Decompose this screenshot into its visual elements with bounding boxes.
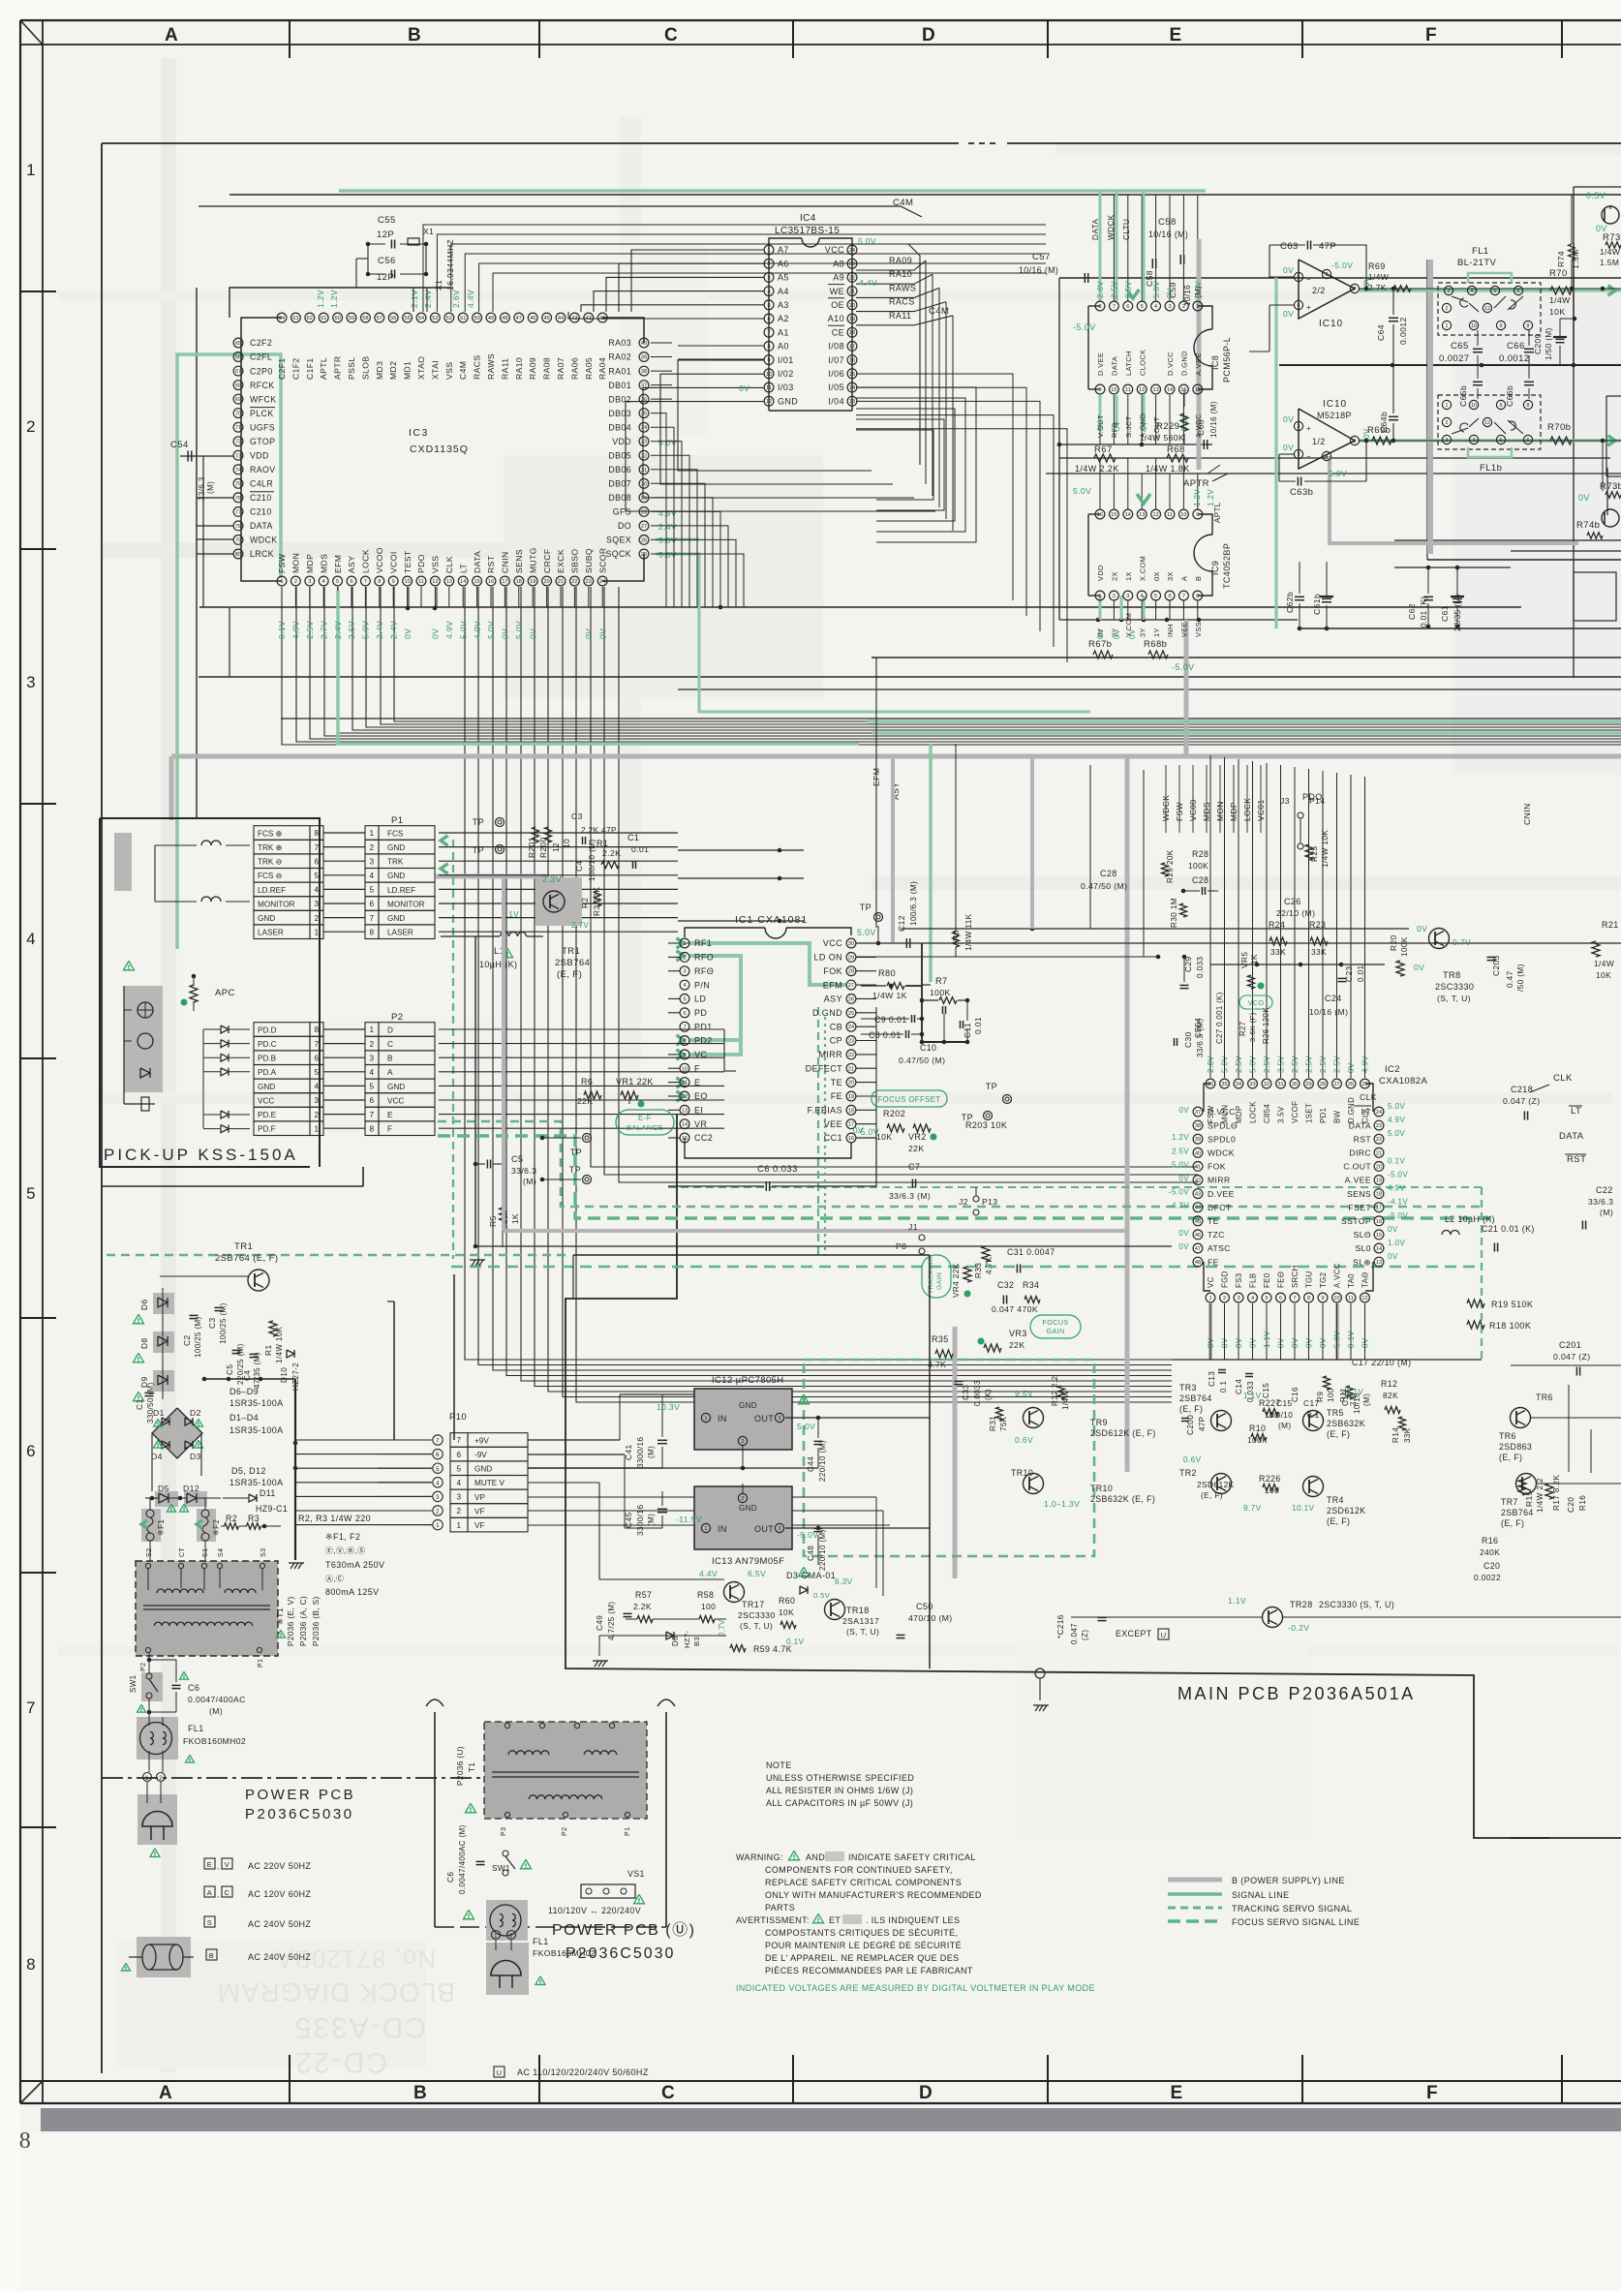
svg-text:EO: EO	[694, 1091, 708, 1101]
svg-text:C1F2: C1F2	[291, 357, 300, 380]
svg-text:MON: MON	[291, 553, 301, 573]
svg-text:8: 8	[1196, 594, 1199, 599]
svg-text:2: 2	[1446, 306, 1449, 312]
svg-text:D: D	[387, 1026, 393, 1034]
svg-text:C64b: C64b	[1379, 412, 1389, 433]
svg-text:ET: ET	[829, 1915, 841, 1925]
svg-text:VR5: VR5	[1239, 952, 1249, 969]
svg-text:3: 3	[1237, 1296, 1239, 1301]
svg-text:0.47/50 (M): 0.47/50 (M)	[1081, 881, 1127, 891]
svg-text:56: 56	[390, 316, 396, 321]
svg-text:C28: C28	[1100, 869, 1117, 878]
svg-text:1/4W: 1/4W	[1368, 272, 1389, 282]
wire P2 rows to right	[439, 1028, 724, 1030]
svg-text:0V: 0V	[1283, 265, 1294, 275]
svg-text:0V: 0V	[1283, 414, 1294, 424]
svg-text:P2036C5030: P2036C5030	[566, 1945, 675, 1962]
svg-text:C48: C48	[807, 1546, 815, 1561]
svg-text:5: 5	[370, 886, 375, 895]
svg-text:PD: PD	[694, 1008, 707, 1018]
svg-text:C6 0.033: C6 0.033	[757, 1164, 798, 1175]
svg-text:C30: C30	[1183, 1031, 1193, 1048]
svg-text:0V: 0V	[1140, 420, 1148, 431]
svg-text:22K: 22K	[908, 1144, 925, 1153]
svg-text:6: 6	[1527, 438, 1530, 444]
svg-text:15: 15	[1376, 1233, 1382, 1239]
svg-text:71: 71	[235, 425, 241, 431]
svg-text:EFM: EFM	[333, 555, 343, 573]
svg-text:R5: R5	[488, 1215, 498, 1227]
svg-text:FGD: FGD	[1221, 1270, 1230, 1288]
svg-text:0V: 0V	[853, 1125, 864, 1135]
wires regulator rails	[620, 1394, 930, 1565]
svg-text:68: 68	[235, 383, 241, 389]
svg-text:0V: 0V	[1347, 1062, 1356, 1073]
svg-text:0V: 0V	[1417, 924, 1427, 934]
svg-text:CB54: CB54	[1194, 1018, 1203, 1038]
svg-text:MD1: MD1	[403, 361, 413, 380]
svg-text:6: 6	[315, 857, 320, 866]
svg-text:R67: R67	[1094, 444, 1113, 455]
svg-text:8: 8	[370, 928, 375, 936]
svg-text:MUTE V: MUTE V	[474, 1479, 505, 1487]
svg-text:2.6V: 2.6V	[1096, 281, 1105, 298]
svg-text:LD: LD	[694, 995, 706, 1004]
svg-text:SENS: SENS	[1347, 1189, 1371, 1199]
svg-text:RFCK: RFCK	[250, 381, 275, 390]
svg-text:A6: A6	[778, 259, 789, 268]
svg-text:0V: 0V	[1319, 1337, 1328, 1348]
wire EFM row	[922, 984, 931, 986]
svg-text:30: 30	[1292, 1082, 1298, 1087]
green P1 arrows	[441, 836, 448, 845]
capacitor C64b	[1379, 365, 1398, 443]
legend line samples	[1168, 1876, 1360, 1927]
svg-text:R74: R74	[1556, 251, 1566, 267]
svg-text:FKOB160MH02: FKOB160MH02	[183, 1736, 246, 1746]
svg-text:B: B	[413, 2083, 427, 2103]
svg-text:SPDL0: SPDL0	[1208, 1134, 1236, 1144]
connector P1 table	[323, 815, 435, 939]
svg-text:R26 120K: R26 120K	[1262, 1007, 1270, 1044]
svg-text:0.1V: 0.1V	[277, 621, 287, 639]
svg-text:C22: C22	[1596, 1185, 1613, 1195]
transistor TR1 power	[160, 1241, 278, 1291]
svg-text:LASER: LASER	[258, 929, 284, 937]
capacitor C58	[1145, 217, 1188, 287]
svg-text:2SB632K (E, F): 2SB632K (E, F)	[1090, 1494, 1155, 1504]
svg-text:0V: 0V	[1096, 628, 1105, 639]
op-amp IC10 1/2	[1283, 399, 1621, 478]
regulator area boundary wires	[573, 1255, 930, 1668]
svg-text:C4M: C4M	[929, 306, 949, 317]
svg-text:11: 11	[1348, 1296, 1354, 1301]
svg-text:SLOB: SLOB	[360, 355, 370, 380]
svg-text:72: 72	[235, 440, 241, 445]
svg-text:TGU: TGU	[1305, 1270, 1314, 1288]
svg-text:2.2K: 2.2K	[602, 848, 621, 858]
svg-text:SPDLΘ: SPDLΘ	[1208, 1120, 1238, 1130]
voltage table E V A C S B	[204, 1858, 311, 1962]
svg-text:V: V	[225, 1860, 229, 1869]
svg-text:4: 4	[1141, 594, 1144, 599]
svg-text:0V: 0V	[584, 628, 594, 639]
svg-text:D8: D8	[139, 1337, 149, 1349]
svg-text:2SD612K (E, F): 2SD612K (E, F)	[1090, 1428, 1156, 1438]
transistor TR6	[1499, 1393, 1553, 1462]
svg-text:L2 10µH (K): L2 10µH (K)	[1445, 1214, 1495, 1224]
svg-text:R27: R27	[1239, 1021, 1247, 1036]
transistor TR2	[1179, 1455, 1281, 1513]
svg-text:5.0V: 5.0V	[361, 621, 371, 639]
svg-text:12: 12	[551, 842, 561, 852]
wire main left border	[101, 143, 103, 2073]
svg-text:RA06: RA06	[569, 357, 579, 380]
svg-text:78: 78	[235, 524, 241, 530]
svg-text:5.0V: 5.0V	[1388, 1129, 1405, 1138]
trimmer VR4 22K rotated	[952, 1263, 971, 1298]
capacitor C61b	[1312, 562, 1333, 628]
svg-text:14: 14	[1125, 512, 1131, 518]
svg-text:12: 12	[1484, 306, 1490, 312]
svg-text:GND: GND	[387, 914, 405, 923]
svg-text:41: 41	[1195, 1164, 1201, 1170]
svg-text:5.0V: 5.0V	[514, 621, 524, 639]
svg-text:6: 6	[1126, 304, 1129, 310]
svg-text:TP: TP	[860, 903, 872, 912]
svg-text:10: 10	[766, 372, 772, 378]
svg-text:15: 15	[682, 1136, 688, 1142]
svg-text:P2036 (U): P2036 (U)	[456, 1746, 465, 1786]
resistor R67	[1075, 444, 1119, 474]
svg-text:2X: 2X	[1111, 571, 1119, 581]
wire y473 R67 line	[1059, 457, 1610, 459]
svg-text:TRACKING: TRACKING	[928, 1257, 934, 1294]
junction dots y627	[406, 606, 411, 611]
svg-text:POUR MAINTENIR LE DEGRÉ DE SÉC: POUR MAINTENIR LE DEGRÉ DE SÉCURITÉ	[765, 1941, 962, 1950]
svg-text:5: 5	[1298, 275, 1300, 281]
svg-text:CLTU: CLTU	[1122, 219, 1131, 240]
svg-text:2SB764 (E, F): 2SB764 (E, F)	[215, 1253, 278, 1264]
svg-text:R16: R16	[1578, 1495, 1587, 1511]
svg-text:COMPONENTS FOR CONTINUED SAFET: COMPONENTS FOR CONTINUED SAFETY,	[765, 1865, 953, 1875]
svg-text:13: 13	[1152, 387, 1158, 393]
svg-text:5: 5	[1141, 304, 1144, 310]
op-amp IC10 2/2	[1283, 260, 1371, 329]
svg-text:R9: R9	[1316, 1392, 1325, 1402]
capacitor C12 and resistor R8	[856, 744, 1409, 959]
svg-text:1.1V: 1.1V	[1346, 1388, 1363, 1396]
wires P10 left leads	[295, 1439, 432, 1441]
svg-text:R14: R14	[1392, 1427, 1400, 1443]
svg-text:FSET: FSET	[1348, 1203, 1371, 1212]
svg-text:E: E	[1170, 2083, 1182, 2103]
svg-text:12: 12	[1139, 387, 1145, 393]
note block	[766, 1760, 914, 1808]
svg-text:6: 6	[315, 1054, 320, 1062]
svg-text:DATA: DATA	[1349, 1120, 1371, 1130]
svg-text:F: F	[694, 1063, 700, 1073]
gray B power to regulators	[953, 1327, 958, 1578]
line filter FL1 (U)	[486, 1900, 596, 1958]
svg-text:IC10: IC10	[1323, 399, 1347, 410]
svg-text:R23: R23	[1309, 920, 1326, 930]
filter FL1	[1438, 246, 1541, 335]
svg-text:4: 4	[1473, 438, 1476, 444]
svg-text:6: 6	[370, 1096, 375, 1105]
svg-text:D10: D10	[280, 1367, 289, 1383]
transistor TR28	[1071, 1596, 1621, 1633]
svg-text:1/4W 10K: 1/4W 10K	[1321, 830, 1330, 868]
svg-text:45: 45	[543, 316, 549, 321]
svg-text:CXA1082A: CXA1082A	[1379, 1076, 1427, 1087]
svg-text:18: 18	[849, 330, 855, 336]
svg-text:57: 57	[377, 316, 382, 321]
svg-text:2.4V: 2.4V	[388, 621, 398, 639]
wire IC8 bottom leads	[1099, 395, 1101, 444]
svg-text:VR3: VR3	[1009, 1329, 1027, 1338]
capacitor C59	[1168, 255, 1203, 306]
capacitor C54	[170, 440, 233, 501]
svg-text:79: 79	[235, 537, 241, 543]
svg-text:8: 8	[370, 1124, 375, 1133]
svg-text:5.0V: 5.0V	[1172, 1160, 1189, 1169]
svg-text:1: 1	[494, 1934, 498, 1940]
svg-text:6: 6	[370, 900, 375, 908]
wire y287 C57 line	[1059, 277, 1621, 279]
svg-text:76: 76	[235, 496, 241, 502]
svg-text:D.GND: D.GND	[1180, 351, 1189, 376]
svg-text:4: 4	[370, 872, 375, 880]
svg-text:DB01: DB01	[608, 381, 631, 390]
svg-text:0V: 0V	[1283, 443, 1294, 452]
svg-text:5: 5	[1154, 594, 1157, 599]
svg-text:1/4W 2.2K: 1/4W 2.2K	[1075, 464, 1119, 474]
svg-text:FL1: FL1	[533, 1937, 549, 1946]
resistor R70b	[1547, 422, 1572, 444]
capacitor C209 right	[1533, 317, 1576, 365]
svg-text:M5218P: M5218P	[1317, 411, 1352, 420]
svg-text:B: B	[209, 1951, 214, 1960]
svg-text:R19 510K: R19 510K	[1491, 1300, 1533, 1309]
svg-text:1K: 1K	[1250, 954, 1259, 964]
svg-text:24: 24	[599, 579, 605, 585]
svg-text:5.0V: 5.0V	[458, 621, 468, 639]
svg-text:R74b: R74b	[1576, 520, 1600, 531]
svg-text:100K: 100K	[1188, 861, 1208, 871]
svg-text:4: 4	[315, 886, 320, 895]
svg-text:42: 42	[1195, 1179, 1201, 1184]
svg-text:22K: 22K	[1009, 1340, 1025, 1350]
gray B feed to IC2 A.VCC	[1335, 1303, 1339, 1360]
svg-text:43: 43	[571, 316, 577, 321]
svg-text:0V: 0V	[431, 628, 441, 639]
svg-text:P3: P3	[501, 1827, 507, 1836]
svg-text:9: 9	[1098, 387, 1101, 393]
svg-text:*C216: *C216	[1056, 1614, 1065, 1638]
svg-text:1X: 1X	[1124, 571, 1133, 581]
bottom gray bar	[41, 2108, 1621, 2131]
svg-text:0.01: 0.01	[1357, 964, 1365, 982]
svg-text:R69: R69	[1368, 261, 1386, 271]
svg-text:11: 11	[1125, 387, 1131, 393]
svg-text:0.01 (K): 0.01 (K)	[1420, 597, 1428, 628]
svg-text:0V: 0V	[1178, 1106, 1189, 1115]
ferrite barrel symbol (gray)	[122, 1937, 195, 1977]
svg-text:FL1: FL1	[188, 1724, 204, 1733]
svg-text:RAWS: RAWS	[889, 283, 916, 292]
svg-text:PD.E: PD.E	[258, 1111, 277, 1119]
wire vertical bundle from IC3 bottom pins down	[465, 587, 1172, 1360]
svg-text:6: 6	[436, 1453, 440, 1458]
wire power cutout boundary	[566, 1114, 1621, 1838]
diodes D5 D12	[145, 1466, 284, 1512]
svg-text:TR17: TR17	[742, 1600, 765, 1609]
svg-text:2: 2	[370, 843, 375, 852]
svg-text:GND: GND	[258, 914, 275, 923]
svg-text:4.7/25 (M): 4.7/25 (M)	[607, 1602, 616, 1640]
frame top ticks	[289, 20, 291, 58]
svg-text:15: 15	[1111, 512, 1116, 518]
svg-text:22: 22	[849, 275, 855, 281]
svg-text:1: 1	[370, 829, 375, 838]
svg-text:34: 34	[641, 425, 647, 431]
svg-text:P2036 (B, S): P2036 (B, S)	[312, 1596, 321, 1646]
svg-text:38: 38	[1195, 1123, 1201, 1129]
svg-text:C4: C4	[574, 860, 584, 872]
svg-text:C201: C201	[1559, 1340, 1581, 1350]
svg-text:10: 10	[1471, 403, 1477, 409]
svg-text:2SC3330 (S, T, U): 2SC3330 (S, T, U)	[1319, 1600, 1394, 1609]
svg-text:(E, F): (E, F)	[1327, 1516, 1350, 1526]
svg-text:1Y: 1Y	[1152, 628, 1161, 637]
svg-text:2.6V: 2.6V	[1207, 1056, 1215, 1073]
svg-text:24: 24	[848, 1025, 854, 1030]
svg-text:12P: 12P	[377, 230, 394, 240]
svg-text:4: 4	[1251, 1296, 1254, 1301]
svg-text:LOCK: LOCK	[1249, 1101, 1258, 1123]
svg-text:10: 10	[1111, 387, 1116, 393]
svg-text:21: 21	[849, 290, 855, 295]
svg-text:R16: R16	[1482, 1536, 1498, 1546]
svg-text:3: 3	[1298, 424, 1300, 430]
svg-text:T630mA 250V: T630mA 250V	[325, 1560, 384, 1570]
svg-text:RACS: RACS	[889, 297, 915, 307]
svg-text:69: 69	[235, 397, 241, 403]
svg-text:2.6V: 2.6V	[451, 290, 461, 308]
svg-text:0V: 0V	[1235, 1337, 1243, 1348]
photodiode arrows (pickup)	[203, 1026, 250, 1133]
svg-text:R21: R21	[1602, 920, 1619, 930]
svg-text:C205: C205	[1491, 955, 1501, 976]
svg-text:2.7V: 2.7V	[571, 921, 589, 930]
svg-text:-5.0V: -5.0V	[1331, 260, 1353, 270]
svg-text:5.0V: 5.0V	[797, 1422, 815, 1431]
capacitor C33 rotated	[955, 1380, 994, 1406]
svg-text:IC3: IC3	[409, 427, 429, 439]
svg-text:(M): (M)	[206, 481, 215, 494]
wire bus horizontal y679	[872, 657, 1621, 658]
svg-text:TEST: TEST	[403, 550, 413, 573]
svg-text:28: 28	[1320, 1082, 1326, 1087]
IC3 left pins 65-80	[233, 338, 277, 559]
svg-text:800mA 125V: 800mA 125V	[325, 1587, 380, 1597]
svg-text:J1: J1	[908, 1222, 918, 1232]
switch SW1 and capacitor C6 power	[129, 1653, 246, 1717]
svg-text:TAΘ: TAΘ	[1361, 1271, 1370, 1288]
svg-text:FOCUS SERVO SIGNAL LINE: FOCUS SERVO SIGNAL LINE	[1232, 1917, 1360, 1927]
wire IC3 top staircase to IC4	[631, 250, 764, 312]
IC2 bottom pins 1-12	[1206, 1263, 1370, 1360]
svg-text:S.JCT: S.JCT	[1124, 415, 1133, 438]
svg-text:0V: 0V	[1578, 493, 1590, 503]
svg-text:(M): (M)	[1362, 1393, 1371, 1406]
svg-text:0.6V: 0.6V	[1183, 1455, 1202, 1464]
svg-text:FOCUS OFFSET: FOCUS OFFSET	[877, 1095, 940, 1104]
svg-text:27: 27	[641, 524, 647, 530]
svg-text:25: 25	[641, 552, 647, 558]
pick-up KSS-150A outline	[100, 818, 320, 1167]
svg-text:LRCK: LRCK	[250, 549, 274, 559]
svg-text:10: 10	[1333, 1296, 1339, 1301]
svg-text:A: A	[387, 1068, 393, 1077]
svg-text:C2FL: C2FL	[250, 352, 272, 362]
svg-text:4: 4	[1154, 304, 1157, 310]
svg-text:RA10: RA10	[514, 357, 524, 380]
svg-text:3: 3	[1446, 438, 1449, 444]
capacitor C60	[1196, 401, 1218, 449]
svg-text:10: 10	[404, 579, 410, 585]
svg-text:2.5V: 2.5V	[1305, 1056, 1314, 1073]
svg-text:CNIN: CNIN	[501, 551, 510, 573]
svg-text:19: 19	[1376, 1179, 1382, 1184]
svg-text:R12: R12	[1381, 1379, 1397, 1389]
svg-text:Ⓐ,Ⓒ: Ⓐ,Ⓒ	[325, 1575, 344, 1583]
svg-text:20: 20	[848, 1081, 854, 1087]
IC3 bottom pins 1-24	[277, 547, 607, 586]
svg-text:I/04: I/04	[828, 396, 844, 406]
wire y459 line	[1058, 444, 1212, 445]
svg-text:C63: C63	[1280, 241, 1299, 252]
svg-text:2SD612K: 2SD612K	[1197, 1480, 1235, 1489]
svg-text:C50: C50	[916, 1602, 933, 1611]
svg-text:IN: IN	[718, 1524, 727, 1534]
resistor R69b	[1367, 425, 1392, 444]
svg-text:5.0V: 5.0V	[1333, 1331, 1342, 1348]
svg-text:J3: J3	[1280, 796, 1290, 806]
svg-text:P2036 (A, C): P2036 (A, C)	[299, 1596, 308, 1646]
svg-text:,: ,	[217, 1862, 220, 1871]
svg-text:VCC: VCC	[387, 1096, 404, 1105]
svg-text:IC10: IC10	[1319, 319, 1343, 329]
power rail heavy vertical	[152, 1377, 297, 1560]
svg-text:2.5V: 2.5V	[1235, 1056, 1243, 1073]
svg-text:VDD: VDD	[250, 450, 269, 460]
IC2 right pins 24-13	[1341, 1092, 1408, 1267]
green channel output lines	[1360, 289, 1621, 291]
svg-text:33/6.3: 33/6.3	[511, 1166, 536, 1176]
svg-text:X1: X1	[423, 227, 434, 236]
svg-text:3: 3	[457, 1493, 462, 1502]
svg-text:2.7V: 2.7V	[319, 621, 328, 639]
svg-text:35: 35	[1221, 1082, 1227, 1087]
svg-text:1: 1	[436, 1523, 440, 1529]
svg-text:DATA: DATA	[473, 551, 482, 573]
svg-text:FOCUS: FOCUS	[1042, 1318, 1068, 1327]
svg-text:0.01: 0.01	[973, 1017, 983, 1034]
svg-text:2.7K: 2.7K	[1368, 283, 1387, 292]
svg-text:54: 54	[418, 316, 424, 321]
